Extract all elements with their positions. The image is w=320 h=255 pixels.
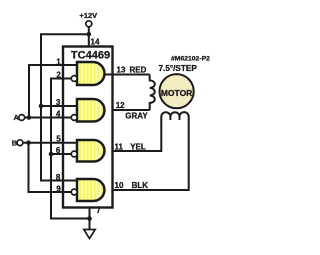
svg-text:9: 9 [56, 184, 61, 193]
bubble pin 9 [71, 189, 77, 195]
svg-text:11: 11 [115, 143, 124, 152]
bubble pin 4 [71, 115, 77, 121]
svg-text:RED: RED [130, 66, 147, 75]
gate U1d [77, 179, 104, 201]
svg-text:GRAY: GRAY [125, 111, 148, 120]
wire pin 7 to ground [89, 208, 91, 230]
svg-text:12: 12 [116, 101, 125, 110]
bubble pin 6 [71, 151, 77, 157]
wire output 10 to winding 2 [113, 120, 189, 191]
wire output 11 to winding 2 [113, 120, 161, 152]
wire output 12 to winding [113, 109, 150, 111]
gate U1c [77, 140, 104, 162]
wire node B to pin 5 [23, 142, 78, 144]
junction pin 6 rail [49, 152, 54, 157]
svg-text:7.5°/STEP: 7.5°/STEP [159, 64, 198, 73]
terminal +12V [86, 21, 92, 27]
svg-text:8: 8 [56, 173, 61, 182]
wire node A to pin 1 (corner) [29, 65, 78, 118]
svg-text:TC4469: TC4469 [71, 50, 110, 62]
IC U1 TC4469 box [63, 47, 113, 208]
junction node A [27, 115, 32, 120]
svg-text:5: 5 [56, 135, 61, 144]
svg-text:7: 7 [96, 206, 101, 215]
svg-text:6: 6 [56, 146, 61, 155]
wire +12V jog left [40, 33, 89, 35]
wire ground rail pin2 pin6 pin7 (line 2) [51, 79, 90, 219]
inductor L2 motor winding 2 [161, 112, 188, 120]
wire pin 3 stub [41, 105, 78, 107]
terminal input B [17, 140, 23, 146]
svg-text:MOTOR: MOTOR [161, 88, 192, 98]
wire +12V vertical to pin 14 [88, 27, 90, 47]
wire node A horizontal to pin 4 [25, 117, 72, 119]
junction +12V top [87, 32, 92, 37]
svg-text:BLK: BLK [132, 181, 149, 190]
svg-text:2: 2 [56, 71, 61, 80]
junction ground [87, 216, 92, 221]
svg-text:13: 13 [117, 66, 126, 75]
wire pin 8 stub [40, 180, 78, 182]
wire pin 6 stub [51, 153, 72, 155]
svg-text:#M62102-P2: #M62102-P2 [171, 56, 210, 63]
junction pin 3 rail [39, 104, 44, 109]
svg-text:A: A [14, 113, 20, 122]
svg-text:YEL: YEL [130, 143, 146, 152]
svg-text:14: 14 [91, 38, 100, 47]
junction node B [26, 140, 31, 145]
ground symbol [84, 230, 95, 239]
gate U1b [77, 99, 104, 122]
bubble pin 2 [71, 76, 77, 82]
motor M1 body [160, 74, 194, 108]
svg-text:1: 1 [56, 57, 61, 66]
svg-text:4: 4 [56, 110, 61, 119]
wire node B down to pin 9 [29, 143, 72, 192]
svg-text:B: B [12, 139, 18, 148]
gate U1a [77, 62, 105, 85]
inductor L1 motor winding 1 [150, 75, 155, 111]
wire output 13 to winding [103, 74, 150, 76]
terminal input A [19, 115, 25, 121]
wire +12V rail down to pin 3 and pin 8 (line 1) [40, 34, 42, 180]
svg-text:10: 10 [115, 181, 124, 190]
svg-text:+12V: +12V [79, 11, 97, 20]
svg-text:3: 3 [56, 98, 61, 107]
